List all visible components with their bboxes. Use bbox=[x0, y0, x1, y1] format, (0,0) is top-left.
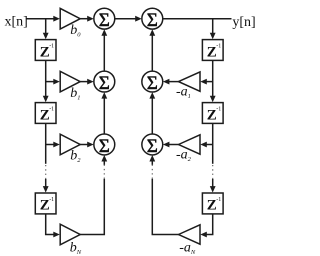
summer S6 bbox=[142, 134, 163, 157]
wire summer S5 up to summer S3 bbox=[101, 92, 107, 134]
value label b0 bbox=[70, 23, 81, 39]
wire tap to -a1 amplifier bbox=[200, 79, 212, 85]
svg-text:-1: -1 bbox=[49, 44, 54, 50]
wire b0 output to summer S1 bbox=[80, 16, 94, 22]
summer S4 bbox=[142, 71, 163, 94]
delay Z4 (right, z^-1) bbox=[202, 40, 223, 61]
amplifier b0 bbox=[60, 8, 80, 29]
svg-text:-1: -1 bbox=[49, 107, 54, 113]
wire summer S4 up to summer S2 bbox=[149, 29, 155, 71]
summer S1 bbox=[94, 8, 115, 31]
wire summer S1 to summer S2 bbox=[115, 16, 142, 22]
summer S3 bbox=[94, 71, 115, 94]
svg-text:Σ: Σ bbox=[147, 73, 158, 94]
wire junction down into delay Z4 bbox=[210, 19, 216, 40]
wire ellipsis dotted segment left chain bbox=[45, 165, 47, 179]
wire summer S6 up to summer S4 bbox=[149, 92, 155, 134]
amplifier -a2 bbox=[179, 135, 201, 154]
wire delay Z1 to delay Z2 bbox=[43, 60, 49, 102]
amplifier b2 bbox=[60, 134, 80, 155]
wire junction down into delay Z1 bbox=[43, 19, 49, 40]
wire x[n] to b0 amplifier input (with junction tee at x=45.7) bbox=[27, 16, 60, 22]
delay Z6 (right bottom, z^-1) bbox=[202, 193, 223, 214]
value label b2 bbox=[70, 149, 81, 165]
svg-text:Σ: Σ bbox=[99, 10, 110, 31]
wire delay Z4 to delay Z5 bbox=[210, 60, 216, 102]
wire into delay Z3 bbox=[43, 179, 49, 193]
svg-text:-1: -1 bbox=[216, 197, 221, 203]
svg-text:Σ: Σ bbox=[147, 136, 158, 157]
wire tap to b1 amplifier bbox=[46, 79, 60, 85]
wire -aN output up to summer S6 (solid, then dotted ellipsis, then arrow) bbox=[152, 179, 178, 235]
delay Z5 (right, z^-1) bbox=[202, 103, 223, 124]
wire delay Z2 down (solid part) bbox=[45, 123, 47, 163]
svg-text:Σ: Σ bbox=[99, 136, 110, 157]
value label -a1 bbox=[176, 84, 191, 100]
wire ellipsis dotted segment bN to S5 bbox=[103, 165, 105, 179]
wire summer S2 to y[n] output (junction tee at x=212.7) bbox=[163, 18, 232, 20]
wire b1 output to summer S3 bbox=[80, 79, 94, 85]
svg-text:-1: -1 bbox=[216, 44, 221, 50]
wire delay Z6 to -aN amplifier bbox=[200, 214, 212, 238]
wire summer S3 up to summer S1 bbox=[101, 29, 107, 71]
wire arrow into summer S5 bottom bbox=[101, 155, 107, 165]
wire tap to b2 amplifier bbox=[46, 142, 60, 148]
svg-text:Σ: Σ bbox=[147, 10, 158, 31]
wire ellipsis dotted segment right chain bbox=[212, 165, 214, 179]
wire arrow into summer S6 bottom bbox=[149, 155, 155, 165]
value label -a2 bbox=[176, 147, 192, 163]
svg-text:-1: -1 bbox=[216, 107, 221, 113]
summer S2 bbox=[142, 8, 163, 31]
wire delay Z3 to bN amplifier bbox=[46, 214, 60, 238]
amplifier -aN bbox=[179, 225, 201, 244]
amplifier bN bbox=[60, 224, 80, 245]
svg-text:y[n]: y[n] bbox=[232, 15, 255, 30]
wire -a1 output to summer S4 bbox=[163, 79, 179, 85]
wire b2 output to summer S5 bbox=[80, 142, 94, 148]
svg-text:x[n]: x[n] bbox=[5, 15, 28, 30]
value label bN bbox=[70, 241, 82, 256]
wire into delay Z6 bbox=[210, 179, 216, 193]
delay Z2 (left, z^-1) bbox=[35, 103, 56, 124]
wire -a2 output to summer S6 bbox=[163, 142, 179, 148]
delay Z3 (left bottom, z^-1) bbox=[35, 193, 56, 214]
wire bN output up to summer S5 (solid, then dotted ellipsis, then arrow) bbox=[80, 179, 104, 235]
delay Z1 (left, z^-1) bbox=[35, 40, 56, 61]
summer S5 bbox=[94, 134, 115, 157]
value label -aN bbox=[179, 241, 196, 256]
wire tap to -a2 amplifier bbox=[200, 142, 212, 148]
wire delay Z5 down (solid part) bbox=[212, 123, 214, 163]
amplifier -a1 bbox=[179, 72, 201, 91]
svg-text:Σ: Σ bbox=[99, 73, 110, 94]
amplifier b1 bbox=[60, 71, 80, 92]
value label b1 bbox=[70, 86, 80, 102]
svg-text:-1: -1 bbox=[49, 197, 54, 203]
wire ellipsis dotted segment -aN to S6 bbox=[151, 165, 153, 179]
